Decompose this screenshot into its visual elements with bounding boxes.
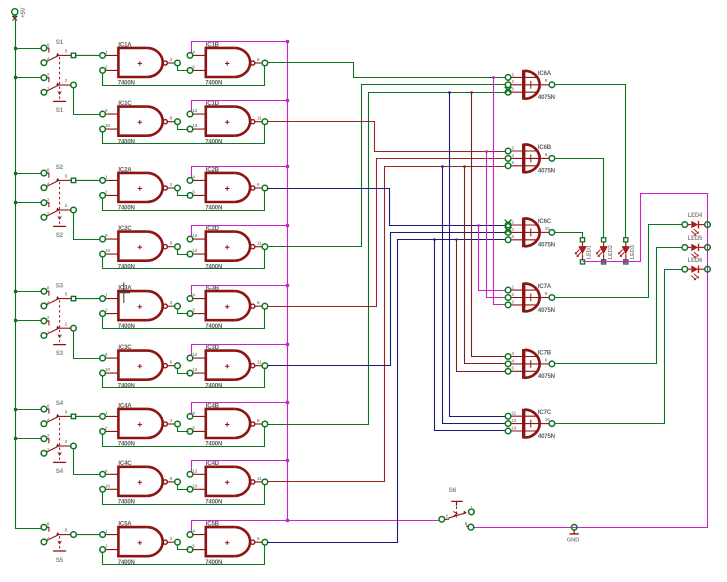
svg-text:10: 10 <box>105 483 110 488</box>
svg-text:GND: GND <box>567 537 579 543</box>
no-connect X IC6C pin2 <box>505 227 512 234</box>
wire IC1D pin4 magenta stub <box>192 101 288 112</box>
wire rail branch 1 <box>16 48 42 50</box>
svg-text:12: 12 <box>192 352 197 357</box>
wire S3 pole B to next gate <box>74 331 100 359</box>
wire rail branch 7 <box>16 409 42 411</box>
nand gate IC3B <box>187 291 268 320</box>
svg-text:12: 12 <box>192 468 197 473</box>
junction magenta bus row 5 <box>286 284 289 287</box>
junction magenta bus row 8 <box>286 459 289 462</box>
junction rail branch 6 <box>14 319 17 322</box>
wire IC4D feedback to IC4C <box>103 485 265 505</box>
label S3 pole B pins <box>47 315 68 357</box>
wire S2 common to gate input <box>76 179 100 181</box>
label S1 pole B pins <box>47 72 68 114</box>
svg-text:IC2A: IC2A <box>118 166 132 173</box>
wire S5 common to gate input <box>76 534 100 536</box>
junction rail branch 1 <box>14 47 17 50</box>
nand gate IC2B <box>187 173 268 202</box>
svg-text:11: 11 <box>257 476 262 481</box>
junction magenta bus row 1 <box>286 40 289 43</box>
switch S1 pole B <box>41 75 76 102</box>
svg-text:IC2B: IC2B <box>206 166 220 173</box>
nand gate IC4D <box>187 467 268 496</box>
label IC6B <box>512 144 555 175</box>
svg-text:7400N: 7400N <box>118 138 135 145</box>
svg-text:IC2C: IC2C <box>118 225 132 232</box>
label S4 pole B pins <box>47 433 68 475</box>
or-gate IC6C <box>505 218 554 248</box>
svg-text:7400N: 7400N <box>205 263 222 270</box>
nand gate IC3D <box>187 351 268 380</box>
wire IC4A output to IC4B input <box>178 427 189 432</box>
switch S2 pole A <box>41 170 76 210</box>
wire IC7A out to LED4 <box>555 225 683 298</box>
wire maroon tap to IC7B pin4 <box>465 167 506 364</box>
nand gate IC1D <box>187 107 268 136</box>
svg-text:LED4: LED4 <box>688 213 703 219</box>
junction magenta bus row 6 <box>286 343 289 346</box>
svg-text:10: 10 <box>105 367 110 372</box>
svg-text:13: 13 <box>192 248 197 253</box>
svg-text:S2: S2 <box>56 232 64 239</box>
junction maroon tap N7 <box>470 91 472 93</box>
junction rail branch 3 <box>14 172 17 175</box>
wire IC1A output to IC1B input <box>178 66 189 71</box>
wire net N4 IC2D out to IC6A pin2 <box>268 85 506 247</box>
label S5 pole A pins <box>47 522 68 541</box>
power +5V supply symbol <box>12 6 27 20</box>
svg-text:13: 13 <box>192 483 197 488</box>
label S4 pole A pins <box>47 400 68 423</box>
svg-text:IC5A: IC5A <box>118 521 132 528</box>
svg-text:+5V: +5V <box>20 6 27 18</box>
wire IC5B pin4 stub to S6 <box>192 521 439 532</box>
label S2 pole A pins <box>47 164 68 187</box>
nand gate IC1B <box>187 48 268 77</box>
or-gate IC7C <box>505 409 554 439</box>
switch S1 pole A <box>41 45 76 85</box>
wire S4 common to gate input <box>76 415 100 417</box>
LED LED4 <box>682 221 710 236</box>
wire S3 common to gate input <box>76 298 100 300</box>
svg-text:4075N: 4075N <box>538 242 555 249</box>
svg-text:S2: S2 <box>56 164 64 171</box>
wire S1 common to gate input <box>76 54 100 56</box>
label IC3A <box>105 285 173 330</box>
label IC7B <box>512 349 555 380</box>
svg-text:S4: S4 <box>56 400 64 407</box>
svg-text:13: 13 <box>512 425 517 430</box>
wire magenta tap to IC7A pin1 <box>479 226 506 291</box>
svg-text:LED6: LED6 <box>688 258 703 264</box>
label IC1B <box>192 41 260 86</box>
label S3 pole A pins <box>47 282 68 305</box>
wire IC2A output to IC2B input <box>178 191 189 196</box>
junction navy tap N9 <box>433 238 435 240</box>
wire IC6B out to LED2 <box>555 159 604 238</box>
svg-text:LED5: LED5 <box>688 236 703 242</box>
wire maroon tap to IC7B pin5 <box>457 240 506 372</box>
wire navy tap to IC7C pin12 <box>443 167 506 424</box>
label IC2B <box>192 166 260 211</box>
wire net N1 IC1B out to IC6A pin1 <box>268 63 506 78</box>
wire S1 pole B to next gate <box>74 88 100 115</box>
svg-text:7400N: 7400N <box>118 382 135 389</box>
junction maroon tap N9 <box>455 238 457 240</box>
or-gate IC7B <box>505 349 554 379</box>
svg-text:11: 11 <box>257 360 262 365</box>
label IC7A <box>512 283 555 314</box>
wire net N9 IC5B out to IC6C pin3 <box>268 240 506 543</box>
nand gate IC4B <box>187 409 268 438</box>
wire rail branch 4 <box>16 202 42 204</box>
switch S3 pole B <box>41 318 76 345</box>
wire IC1D feedback to IC1C <box>103 125 265 144</box>
wire magenta bus vertical <box>287 42 289 521</box>
wire magenta LED cathode rail <box>474 194 708 528</box>
junction magenta bus bottom <box>286 519 289 522</box>
wire IC3C output to IC3D input <box>178 369 189 374</box>
wire IC6C out to LED1 <box>555 233 583 238</box>
wire maroon tap to IC7B pin3 <box>472 93 506 357</box>
junction rail branch 4 <box>14 201 17 204</box>
or-gate IC6A <box>505 70 554 100</box>
switch S5 pole A <box>41 525 76 552</box>
label IC3C <box>105 344 173 389</box>
wire IC2B feedback to IC2A <box>103 191 265 211</box>
switch S2 pole B <box>41 200 76 227</box>
junction navy tap N7 <box>448 91 450 93</box>
nand gate IC2C <box>100 232 181 261</box>
wire IC6A out to LED3 <box>555 85 626 238</box>
svg-text:S3: S3 <box>56 350 64 357</box>
svg-text:4075N: 4075N <box>538 433 555 440</box>
switch S4 pole B <box>41 436 76 463</box>
wire net N3 IC2B out to IC6C pin1 <box>268 189 506 226</box>
svg-text:LED3: LED3 <box>630 244 636 259</box>
svg-text:4075N: 4075N <box>538 373 555 380</box>
label IC5A <box>105 521 173 566</box>
svg-text:S1: S1 <box>56 39 64 46</box>
label IC2A <box>105 166 173 211</box>
wire rail branch 6 <box>16 320 42 322</box>
nand gate IC3C <box>100 351 181 380</box>
nand gate IC2A <box>100 173 181 202</box>
svg-text:IC1A: IC1A <box>118 41 132 48</box>
svg-text:11: 11 <box>257 116 262 121</box>
nand gate IC4A <box>100 409 181 438</box>
junction rail branch 7 <box>14 408 17 411</box>
wire S4 pole B to next gate <box>74 449 100 475</box>
svg-text:10: 10 <box>105 123 110 128</box>
wire IC7C out to LED6 <box>555 270 683 424</box>
junction magenta bus row 3 <box>286 165 289 168</box>
svg-text:12: 12 <box>192 108 197 113</box>
nand gate IC2D <box>187 232 268 261</box>
wire net N7 IC4B out to IC6A pin3 <box>268 93 506 425</box>
wire IC1C output to IC1D input <box>178 125 189 130</box>
svg-text:LED1: LED1 <box>587 244 593 259</box>
svg-text:12: 12 <box>512 418 517 423</box>
wire IC4B feedback to IC4A <box>103 427 265 447</box>
wire rail branch 5 <box>16 291 42 293</box>
or-gate IC7A <box>505 283 554 313</box>
svg-text:IC1B: IC1B <box>206 41 220 48</box>
wire IC3A output to IC3B input <box>178 309 189 314</box>
wire IC4B pin4 magenta stub <box>192 403 288 414</box>
ground GND <box>570 525 579 534</box>
junction magenta bus row 7 <box>286 401 289 404</box>
svg-text:IC7C: IC7C <box>538 409 552 416</box>
wire IC2B pin4 magenta stub <box>192 167 288 178</box>
wire navy tap to IC7C pin13 <box>435 240 506 431</box>
wire IC3B pin4 magenta stub <box>192 286 288 296</box>
junction rail branch 8 <box>14 437 17 440</box>
svg-text:10: 10 <box>105 248 110 253</box>
svg-text:LED2: LED2 <box>608 245 614 259</box>
svg-text:IC3C: IC3C <box>118 344 132 351</box>
svg-text:IC4C: IC4C <box>118 460 132 467</box>
label IC3B <box>192 285 260 330</box>
origin cross at IC3A <box>118 282 130 303</box>
svg-text:13: 13 <box>192 123 197 128</box>
label IC1D <box>192 100 262 145</box>
label S6 <box>446 487 474 526</box>
LED LED3 <box>618 238 629 264</box>
wire IC4C output to IC4D input <box>178 485 189 490</box>
wire net N2 IC1D out to IC6B pin3 <box>268 122 506 152</box>
label IC6A <box>512 70 555 101</box>
junction magenta tap N3 <box>477 224 479 226</box>
svg-text:IC7B: IC7B <box>538 349 552 356</box>
junction rail branch 2 <box>14 76 17 79</box>
switch S4 pole A <box>41 406 76 446</box>
wire IC1B feedback to IC1A <box>103 66 265 86</box>
svg-text:7400N: 7400N <box>118 263 135 270</box>
no-connect X IC6A pin3 <box>505 87 512 94</box>
junction magenta tap N1 <box>492 76 494 78</box>
svg-text:IC1C: IC1C <box>118 100 132 107</box>
svg-text:7400N: 7400N <box>205 382 222 389</box>
svg-text:IC7A: IC7A <box>538 283 552 290</box>
LED LED6 <box>682 266 710 281</box>
wire net N6 IC3D out to IC6C pin2 <box>268 233 506 366</box>
svg-text:12: 12 <box>192 233 197 238</box>
svg-text:11: 11 <box>257 241 262 246</box>
label IC1C <box>105 100 173 145</box>
label S2 pole B pins <box>47 197 68 239</box>
junction rail branch 5 <box>14 290 17 293</box>
wire IC5A output to IC5B input <box>178 545 189 550</box>
nand gate IC3A <box>100 291 181 320</box>
svg-text:IC4B: IC4B <box>206 402 220 409</box>
LED LED1 <box>575 238 586 264</box>
svg-text:10: 10 <box>545 226 550 231</box>
svg-text:S6: S6 <box>449 487 457 494</box>
wire magenta tap to IC7A pin2 <box>487 152 506 298</box>
svg-text:IC4A: IC4A <box>118 402 132 409</box>
label IC6C <box>512 218 555 249</box>
wire navy tap to IC7C pin11 <box>450 93 506 417</box>
wire net N8 IC4D out to IC6B pin5 <box>268 167 506 482</box>
wire magenta tap to IC7A pin3 <box>494 78 506 305</box>
nand gate IC5A <box>100 527 181 556</box>
label IC4C <box>105 460 173 505</box>
junction navy tap N8 <box>441 165 443 167</box>
svg-text:IC6C: IC6C <box>538 218 552 225</box>
junction LED2 cathode <box>602 260 605 263</box>
junction LED3 cathode <box>624 260 627 263</box>
svg-text:13: 13 <box>192 367 197 372</box>
LED LED5 <box>682 244 710 259</box>
nand gate IC4C <box>100 467 181 496</box>
wire IC1B pin4 magenta stub <box>192 42 288 53</box>
nand gate IC1C <box>100 107 181 136</box>
junction magenta tap N2 <box>485 150 487 152</box>
wire IC2D feedback to IC2C <box>103 250 265 269</box>
svg-text:S1: S1 <box>56 107 64 114</box>
label IC4D <box>192 460 262 505</box>
wire +5V rail <box>16 19 42 529</box>
svg-text:IC4D: IC4D <box>206 460 220 467</box>
junction magenta bus row 2 <box>286 99 289 102</box>
label IC1A <box>105 41 173 86</box>
junction magenta bus row 4 <box>286 224 289 227</box>
svg-text:4075N: 4075N <box>538 168 555 175</box>
wire IC2D pin4 magenta stub <box>192 226 288 237</box>
svg-text:S3: S3 <box>56 282 64 289</box>
wire IC3B feedback to IC3A <box>103 309 265 329</box>
switch S3 pole A <box>41 289 76 329</box>
svg-text:4075N: 4075N <box>538 94 555 101</box>
label IC5B <box>192 521 260 566</box>
svg-text:IC5B: IC5B <box>206 521 220 528</box>
wire IC2C output to IC2D input <box>178 250 189 255</box>
wire IC3D pin4 magenta stub <box>192 345 288 356</box>
label IC2D <box>192 225 262 270</box>
svg-text:IC6B: IC6B <box>538 144 552 151</box>
svg-text:S5: S5 <box>56 557 64 564</box>
svg-text:IC3A: IC3A <box>118 285 132 292</box>
svg-text:IC6A: IC6A <box>538 70 552 77</box>
nand gate IC5B <box>187 527 268 556</box>
label IC4B <box>192 402 260 447</box>
wire IC4D pin4 magenta stub <box>192 461 288 472</box>
wire rail branch 2 <box>16 77 42 79</box>
wire S2 pole B to next gate <box>74 213 100 240</box>
label IC2C <box>105 225 173 270</box>
label S1 pole A pins <box>47 39 68 62</box>
label IC7C <box>512 409 555 440</box>
or-gate IC6B <box>505 144 554 174</box>
svg-text:10: 10 <box>545 417 550 422</box>
svg-text:S4: S4 <box>56 468 64 475</box>
svg-text:11: 11 <box>512 411 517 416</box>
switch S6 <box>439 501 474 530</box>
svg-text:4075N: 4075N <box>538 307 555 314</box>
wire IC5B feedback to IC5A <box>103 545 265 565</box>
wire net N5 IC3B out to IC6B pin4 <box>268 159 506 307</box>
svg-text:7400N: 7400N <box>205 138 222 145</box>
no-connect X IC6C pin1 <box>505 220 512 227</box>
label IC3D <box>192 344 262 389</box>
nand gate IC1A <box>100 48 181 77</box>
wire rail branch 8 <box>16 438 42 440</box>
LED LED2 <box>596 238 607 264</box>
wire rail branch 3 <box>16 173 42 175</box>
label IC4A <box>105 402 173 447</box>
wire IC7B out to LED5 <box>555 248 683 364</box>
wire IC3D feedback to IC3C <box>103 369 265 388</box>
junction maroon tap N8 <box>463 165 465 167</box>
